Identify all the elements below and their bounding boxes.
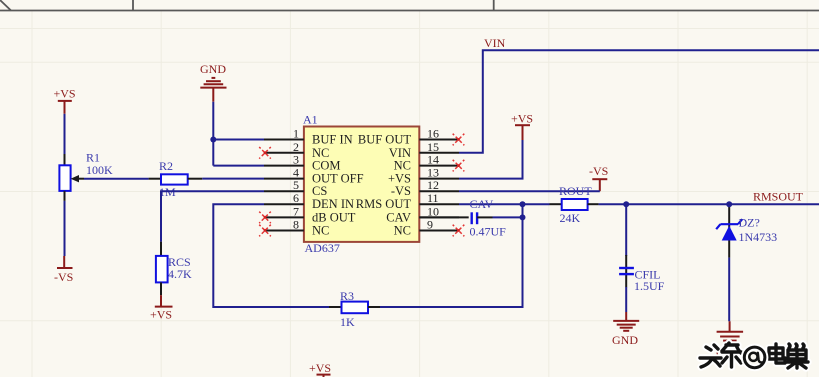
wire +VS to R1 <box>64 114 66 155</box>
svg-text:5: 5 <box>293 178 299 192</box>
svg-text:1K: 1K <box>340 315 355 329</box>
potentiometer R1 <box>59 151 113 191</box>
svg-text:RMSOUT: RMSOUT <box>753 190 804 204</box>
wire GND vertical to pin1/pin3 <box>213 102 264 166</box>
no-connect X pin9 <box>453 225 465 237</box>
wire R2 to pin4 <box>202 178 264 180</box>
IC pin names right <box>356 133 412 238</box>
svg-text:VIN: VIN <box>484 36 506 50</box>
wire CFIL branch <box>625 204 627 256</box>
resistor R2 <box>149 159 203 199</box>
svg-text:-VS: -VS <box>589 164 608 178</box>
svg-text:AD637: AD637 <box>305 241 340 255</box>
power GND below zener <box>716 321 743 359</box>
wire R3 to CAV node <box>380 205 523 307</box>
svg-text:-VS: -VS <box>54 270 73 284</box>
svg-text:100K: 100K <box>86 163 113 177</box>
sheet border <box>0 0 819 11</box>
svg-text:BUF IN: BUF IN <box>312 133 353 147</box>
svg-text:9: 9 <box>427 218 433 232</box>
power GND top <box>200 62 227 102</box>
svg-text:BUF OUT: BUF OUT <box>358 133 411 147</box>
svg-text:0.47UF: 0.47UF <box>470 225 507 239</box>
wire DEN IN pin6 to R3 loop <box>213 204 329 307</box>
svg-text:A1: A1 <box>303 113 318 127</box>
svg-text:16: 16 <box>427 127 439 141</box>
svg-text:1.5UF: 1.5UF <box>634 279 665 293</box>
svg-text:DZ?: DZ? <box>739 216 760 230</box>
svg-text:4.7K: 4.7K <box>168 267 192 281</box>
svg-text:NC: NC <box>394 224 411 238</box>
pin stub R1 bottom <box>64 191 66 201</box>
net VIN wire <box>459 50 819 153</box>
wire R1 wiper to R2 <box>84 178 149 180</box>
power -VS bottom-left <box>54 256 73 284</box>
svg-text:GND: GND <box>612 333 638 347</box>
resistor R3 <box>329 289 380 329</box>
no-connect X pin14 <box>453 160 465 172</box>
svg-text:CAV: CAV <box>470 197 494 211</box>
power +VS below RCS <box>150 295 173 321</box>
power +VS top-left <box>54 87 76 114</box>
svg-text:-VS: -VS <box>391 184 411 198</box>
IC pin names left <box>312 133 364 238</box>
wire ROUT to RMSOUT <box>599 203 819 205</box>
svg-text:R3: R3 <box>340 289 354 303</box>
svg-text:1N4733: 1N4733 <box>739 230 778 244</box>
power +VS bottom-center <box>309 361 331 377</box>
capacitor CAV <box>419 197 506 239</box>
IC pin numbers left <box>293 127 299 232</box>
svg-text:CS: CS <box>312 184 327 198</box>
svg-text:GND: GND <box>200 62 226 76</box>
IC right pins <box>419 140 459 231</box>
resistor ROUT <box>550 184 599 225</box>
junction node pin1/GND <box>210 137 216 143</box>
no-connect X pin2 <box>259 147 271 159</box>
IC pin numbers right <box>427 127 439 232</box>
junction node CAV <box>520 214 526 220</box>
power -VS mid <box>589 164 608 191</box>
no-connect X pin7 <box>259 212 271 224</box>
wire pin11 RMS OUT to ROUT <box>459 203 550 205</box>
svg-text:R2: R2 <box>159 159 173 173</box>
wire CFIL to GND <box>625 287 627 312</box>
svg-text:24K: 24K <box>560 211 581 225</box>
no-connect X pin16 <box>453 134 465 146</box>
wire CS pin5 to RCS <box>161 191 264 242</box>
svg-text:6: 6 <box>293 191 299 205</box>
svg-text:CAV: CAV <box>386 210 411 224</box>
svg-text:10: 10 <box>427 204 439 218</box>
wire CAV to node <box>493 216 523 218</box>
svg-text:ROUT: ROUT <box>559 184 592 198</box>
zener diode DZ? <box>716 204 777 257</box>
wire +VS to pin13 <box>459 140 523 179</box>
svg-text:dB OUT: dB OUT <box>312 210 356 224</box>
junction node RMS line x522 <box>520 201 526 207</box>
watermark 头条@电巢 <box>700 343 808 368</box>
no-connect X pin8 <box>259 225 271 237</box>
svg-text:1: 1 <box>293 127 299 141</box>
svg-text:12: 12 <box>427 178 439 192</box>
svg-text:+VS: +VS <box>511 112 533 126</box>
power GND below CFIL <box>612 312 639 347</box>
svg-text:+VS: +VS <box>150 308 172 322</box>
svg-text:14: 14 <box>427 153 439 167</box>
power +VS mid <box>511 112 533 141</box>
IC left pins <box>264 140 304 231</box>
capacitor CFIL <box>619 255 665 293</box>
svg-text:7: 7 <box>293 204 299 218</box>
junction node CFIL <box>623 201 629 207</box>
IC A1 AD637 <box>303 113 419 256</box>
junction node zener <box>726 201 732 207</box>
svg-text:NC: NC <box>312 224 329 238</box>
svg-text:NC: NC <box>394 159 411 173</box>
resistor RCS <box>156 242 192 296</box>
svg-text:8: 8 <box>293 218 299 232</box>
svg-text:DEN IN: DEN IN <box>312 197 354 211</box>
wire zener to GND <box>728 258 730 322</box>
wire R1 to -VS <box>64 201 66 256</box>
svg-text:11: 11 <box>427 191 439 205</box>
svg-text:+VS: +VS <box>309 361 331 375</box>
svg-text:RMS OUT: RMS OUT <box>356 197 412 211</box>
wire pin12 to -VS <box>459 190 600 192</box>
svg-text:COM: COM <box>312 159 340 173</box>
svg-text:3: 3 <box>293 153 299 167</box>
pin stub R1 top <box>64 154 66 165</box>
svg-text:+VS: +VS <box>54 87 76 101</box>
